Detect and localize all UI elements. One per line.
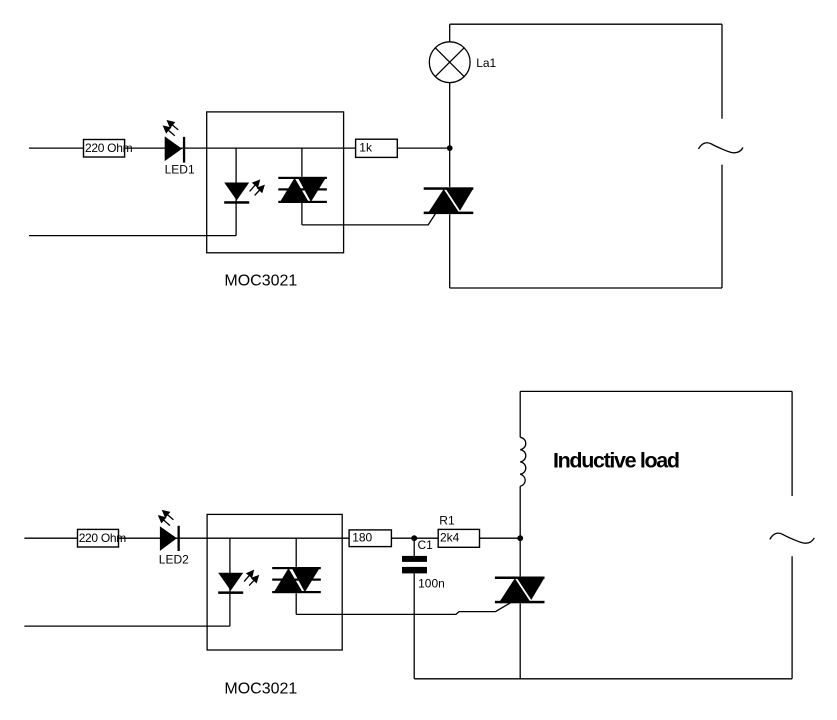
svg-text:1k: 1k — [359, 141, 373, 155]
svg-text:MOC3021: MOC3021 — [224, 273, 297, 290]
svg-text:LED2: LED2 — [159, 552, 189, 566]
svg-text:2k4: 2k4 — [440, 531, 460, 545]
svg-text:LED1: LED1 — [165, 163, 195, 177]
svg-text:100n: 100n — [418, 576, 445, 590]
svg-text:220 Ohm: 220 Ohm — [79, 531, 127, 545]
svg-text:La1: La1 — [476, 56, 496, 70]
svg-text:180: 180 — [352, 531, 372, 545]
svg-text:R1: R1 — [439, 514, 455, 528]
svg-text:220 Ohm: 220 Ohm — [85, 141, 133, 155]
svg-text:MOC3021: MOC3021 — [224, 681, 297, 698]
svg-text:Inductive load: Inductive load — [553, 449, 679, 473]
svg-text:C1: C1 — [418, 538, 434, 552]
